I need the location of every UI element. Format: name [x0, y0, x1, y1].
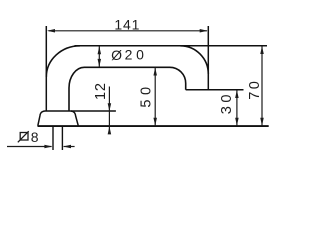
- dimension D8: horizontal dimension lines with opposing arrows (stud diameter): [7, 145, 75, 149]
- svg-text:1: 1: [93, 92, 109, 100]
- svg-text:Ø: Ø: [111, 47, 122, 63]
- svg-text:5: 5: [139, 99, 155, 107]
- dimension 30: vertical dimension line with arrows: [235, 90, 239, 126]
- dimension 141: horizontal dimension line with arrows: [47, 29, 208, 33]
- wire: outer top-left corner arc of handle: [46, 46, 80, 77]
- svg-text:0: 0: [139, 87, 155, 95]
- dimension 70: vertical dimension line with arrows (overall height): [260, 46, 264, 126]
- svg-text:3: 3: [219, 106, 235, 114]
- stud: right edge of 8mm stud: [61, 127, 63, 150]
- wire: right outer vertical of neck + extension line for 141: [207, 26, 209, 90]
- dimension 12: vertical dimension line, arrows outside: [108, 87, 112, 135]
- foot: left shoulder of dome base: [38, 111, 45, 126]
- wire: top outline of grip + extension line for 70: [75, 45, 268, 47]
- dimension 50: vertical dimension line with arrows: [153, 68, 157, 126]
- wire: bottom edge of neck + extension line for 30: [186, 89, 244, 91]
- label D8: slashed-square diameter symbol: [18, 131, 29, 142]
- svg-text:7: 7: [247, 92, 263, 100]
- wire: inner contour of handle (inner verticals, grip underside, corner arcs): [69, 67, 186, 111]
- wire: left outer vertical of handle + extension line for 141: [45, 26, 47, 111]
- wire: outer top-right corner arc of handle: [180, 46, 208, 74]
- svg-text:20: 20: [125, 47, 148, 63]
- wire: mounting surface baseline: [38, 125, 269, 127]
- svg-text:2: 2: [93, 83, 109, 91]
- foot: right shoulder of dome base: [71, 111, 78, 126]
- wire: foot top line + extension line for 12: [45, 110, 116, 112]
- stud: left edge of 8mm stud: [52, 127, 54, 150]
- svg-text:0: 0: [247, 81, 263, 89]
- dimension D20: vertical dimension line with arrows (grip diameter): [98, 46, 102, 67]
- svg-text:141: 141: [114, 16, 140, 32]
- svg-text:8: 8: [31, 129, 39, 145]
- svg-text:0: 0: [219, 95, 235, 103]
